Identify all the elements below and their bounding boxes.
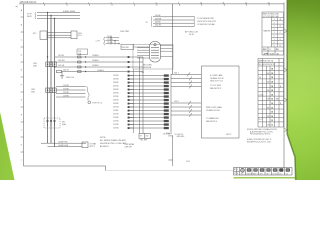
svg-text:CBL 2: CBL 2: [174, 101, 179, 103]
svg-text:2: 2: [274, 22, 275, 24]
phase bus L3: [37, 18, 80, 20]
fuse F1: [78, 56, 81, 58]
svg-text:SEE NOTE 3: SEE NOTE 3: [210, 88, 221, 90]
svg-text:NOTE:: NOTE:: [100, 137, 106, 139]
feeder wire 4: [62, 71, 144, 73]
bottom wire 1: [41, 142, 86, 144]
relay cluster: [104, 37, 150, 50]
phase bus L1: [37, 12, 80, 14]
svg-text:APT GND LUG: APT GND LUG: [185, 31, 198, 34]
svg-text:PWR SW: PWR SW: [122, 47, 130, 49]
filter block FL1: [40, 31, 77, 39]
table 1: [262, 12, 284, 55]
svg-text:9: 9: [274, 45, 275, 47]
svg-text:206 RD: 206 RD: [113, 93, 120, 95]
svg-text:203 BK: 203 BK: [113, 82, 119, 84]
svg-text:J2: J2: [146, 22, 148, 24]
svg-text:1:1: 1:1: [234, 173, 236, 175]
table 2 gauge column: [271, 69, 274, 127]
svg-text:SCL: SCL: [241, 173, 244, 175]
motor plug: [82, 142, 88, 148]
svg-text:B: B: [237, 173, 238, 175]
svg-text:CK 2: CK 2: [279, 173, 283, 175]
P1 wires left: [137, 48, 150, 58]
svg-text:4 AWG WIRE: 4 AWG WIRE: [63, 10, 76, 13]
bottom wire 2: [48, 146, 83, 148]
svg-text:12 AWG: 12 AWG: [92, 59, 99, 62]
svg-text:13: 13: [268, 2, 270, 4]
svg-text:APPR: APPR: [264, 52, 269, 55]
svg-text:SHT 2: SHT 2: [226, 134, 231, 136]
frame left border: [23, 4, 25, 166]
svg-text:PM 100-B1501/02, SHT 10: PM 100-B1501/02, SHT 10: [250, 134, 270, 136]
svg-text:SCALE: NTS DWN: RK CHK: TL: SCALE: NTS DWN: RK CHK: TL: [247, 138, 272, 141]
svg-text:MS3102A: MS3102A: [143, 66, 152, 69]
inline device on feeder 4: [57, 70, 62, 72]
svg-text:E STOP 1.2: E STOP 1.2: [93, 103, 103, 105]
table 1 row entries: [264, 18, 282, 47]
svg-text:L: L: [21, 159, 22, 161]
relay junction dots: [110, 37, 111, 38]
svg-text:14-16: 14-16: [189, 34, 194, 36]
junction dots: [47, 12, 48, 13]
svg-text:216 RD: 216 RD: [113, 128, 120, 130]
bus brace: [34, 12, 37, 19]
svg-text:TO SOLENOID PNL: TO SOLENOID PNL: [197, 18, 214, 20]
frame bottom border: [24, 166, 106, 171]
svg-text:10: 10: [200, 2, 202, 4]
ladder wires: [129, 76, 166, 129]
band sheen: [287, 0, 320, 180]
svg-text:TO JCT BOX: TO JCT BOX: [210, 85, 222, 87]
table 1 footer text: [263, 49, 280, 55]
green side band: [287, 0, 320, 180]
cable run group 1: [171, 72, 201, 88]
TB1 bottom jumpers: [139, 134, 145, 139]
row letters: [21, 9, 23, 161]
svg-text:4: 4: [66, 2, 67, 4]
svg-text:112 RD: 112 RD: [63, 92, 70, 94]
ladder left stubs and labels: [129, 76, 134, 129]
contactor K2: [46, 88, 56, 93]
svg-text:21-3: 21-3: [78, 35, 82, 37]
svg-text:1 CR: 1 CR: [96, 40, 101, 42]
svg-text:AS REQ'D.: AS REQ'D.: [100, 145, 110, 148]
feeder wire 3: [55, 66, 143, 68]
svg-text:SHOWN NOTED. LOOM CABL: SHOWN NOTED. LOOM CABL: [100, 142, 126, 145]
terminal strip TB1 left edge: [133, 69, 135, 133]
svg-text:113 RD: 113 RD: [63, 95, 70, 97]
svg-text:111 RD: 111 RD: [63, 88, 70, 90]
svg-text:10-21: 10-21: [270, 53, 274, 55]
feeder junction dots: [85, 56, 86, 57]
fuse F2: [78, 61, 81, 63]
svg-text:5: 5: [88, 2, 89, 4]
table 2 header text: [259, 59, 276, 66]
svg-text:201 BK: 201 BK: [113, 75, 119, 77]
frame right border: [283, 3, 285, 168]
svg-text:GND LUG: GND LUG: [66, 77, 75, 79]
svg-text:GND BUS: GND BUS: [177, 136, 186, 138]
svg-text:PLC 1: PLC 1: [259, 119, 264, 121]
TB1 rail pair: [139, 57, 141, 134]
top wire group: [153, 17, 194, 27]
svg-text:NO.: NO.: [276, 49, 280, 51]
svg-text:REV 0: REV 0: [253, 173, 258, 175]
feeder wire 1: [55, 56, 143, 58]
svg-text:121 WH: 121 WH: [107, 39, 114, 41]
frame top ruler line: [19, 3, 284, 5]
svg-text:7: 7: [133, 2, 134, 4]
svg-text:J-BOX MTG 4 IN CVR: J-BOX MTG 4 IN CVR: [197, 21, 216, 23]
remote box: [202, 66, 240, 138]
bus drop B: [50, 16, 52, 144]
svg-text:212 RD: 212 RD: [113, 114, 120, 116]
table 1 header text: [263, 13, 280, 18]
svg-text:TO MAIN DISC: TO MAIN DISC: [206, 117, 220, 120]
connector P1: [150, 42, 161, 63]
svg-text:101 BK: 101 BK: [58, 55, 65, 57]
svg-text:12: 12: [245, 2, 247, 4]
phase bus L2: [37, 15, 80, 17]
terminal strip TB2: [164, 74, 169, 129]
contactor K1: [46, 62, 56, 67]
svg-text:304 GN: 304 GN: [155, 25, 162, 27]
svg-text:PWR CORD CABL: PWR CORD CABL: [206, 106, 222, 109]
feeder wire 2: [55, 61, 143, 63]
title block icons: [241, 168, 245, 172]
dim marks: [285, 29, 287, 132]
table 1 sub divider: [277, 18, 279, 48]
svg-text:ENG APPR 10-21-94 P.O. 2210: ENG APPR 10-21-94 P.O. 2210: [247, 141, 271, 144]
svg-text:TB1: TB1: [141, 72, 144, 74]
connector P1 assembly: [133, 45, 173, 70]
svg-text:2 CND: 2 CND: [259, 94, 265, 96]
ruler ticks left: [21, 17, 24, 152]
table 2 cell entries: [259, 73, 282, 127]
svg-text:103 GN: 103 GN: [58, 65, 65, 67]
svg-text:MT: MT: [234, 169, 236, 171]
ground symbol G1: [60, 72, 64, 79]
fuse F3: [78, 66, 81, 68]
svg-text:12 AWG SOOW: 12 AWG SOOW: [206, 109, 220, 112]
svg-text:A-1: A-1: [277, 52, 280, 55]
svg-text:OF 2: OF 2: [266, 173, 269, 175]
cable run group 2: [171, 101, 201, 117]
feeder terminal squares: [128, 56, 130, 72]
svg-text:ALL WIRES 18 AWG UNLESS: ALL WIRES 18 AWG UNLESS: [100, 139, 126, 142]
svg-text:SEE NOTE 4: SEE NOTE 4: [206, 121, 217, 123]
svg-text:TB1 JMP: TB1 JMP: [140, 140, 148, 142]
svg-text:210 RD: 210 RD: [113, 107, 120, 109]
bus riser to P1: [172, 4, 174, 74]
off sheet riser: [172, 136, 174, 167]
title block: [234, 168, 293, 176]
svg-text:209 BK: 209 BK: [113, 103, 119, 105]
svg-text:122 GN: 122 GN: [107, 42, 113, 44]
svg-text:6: 6: [111, 2, 112, 4]
svg-text:6: 6: [274, 36, 275, 38]
svg-text:9: 9: [178, 2, 179, 4]
green corner wedge: [0, 112, 15, 180]
drain symbol: [88, 101, 91, 104]
svg-text:GND 25 FT LG: GND 25 FT LG: [210, 81, 223, 83]
table 2: [258, 59, 284, 128]
svg-text:11: 11: [223, 2, 225, 4]
svg-text:4: 4: [274, 29, 275, 31]
svg-text:205 BK: 205 BK: [113, 89, 119, 91]
group right bracket: [193, 16, 196, 27]
svg-text:211 BK: 211 BK: [113, 110, 119, 112]
svg-text:480V: 480V: [27, 16, 32, 18]
svg-text:301 BK: 301 BK: [155, 15, 161, 17]
svg-text:3: 3: [274, 26, 275, 28]
svg-text:202 RD: 202 RD: [113, 79, 120, 81]
green footer line: [234, 177, 296, 178]
P1 wires right: [161, 46, 173, 57]
svg-text:14 AWG WH: 14 AWG WH: [58, 144, 69, 147]
TB2 rail: [170, 74, 172, 132]
green band dark edge: [287, 0, 296, 180]
svg-text:3: 3: [43, 2, 44, 4]
svg-text:102 WH: 102 WH: [58, 60, 65, 62]
svg-text:7: 7: [274, 39, 275, 41]
svg-text:12 AWG: 12 AWG: [92, 54, 99, 57]
bus tap dots: [47, 56, 48, 57]
group brace: [150, 16, 153, 27]
svg-text:18: 18: [259, 77, 261, 79]
page background: [0, 0, 320, 180]
svg-text:215 BK: 215 BK: [113, 124, 119, 126]
svg-text:16 AWG SJO W: 16 AWG SJO W: [210, 77, 224, 80]
svg-text:2: 2: [270, 49, 271, 51]
stub ladder brace: [87, 86, 90, 97]
svg-text:5: 5: [274, 32, 275, 34]
svg-text:303 RD: 303 RD: [155, 22, 162, 24]
svg-text:CAP OFF: CAP OFF: [125, 145, 132, 148]
svg-text:120V PWR: 120V PWR: [120, 31, 130, 33]
bus drop C: [54, 19, 56, 147]
svg-text:18 COND: 18 COND: [163, 134, 171, 136]
svg-text:B: B: [280, 103, 281, 105]
ruler ticks top: [45, 4, 270, 6]
svg-text:D-4: D-4: [286, 173, 289, 175]
svg-text:XT: XT: [140, 136, 142, 138]
paper edge: [106, 170, 234, 172]
svg-text:208 RD: 208 RD: [113, 100, 120, 102]
svg-text:J: J: [21, 129, 22, 131]
ladder left terminal dots: [128, 75, 130, 129]
svg-text:SH 1: SH 1: [260, 173, 264, 175]
svg-text:COVER SD 1501 AB: COVER SD 1501 AB: [197, 23, 215, 26]
svg-text:2 REQ: 2 REQ: [168, 135, 174, 137]
svg-text:110 RD: 110 RD: [63, 85, 70, 87]
contactor K3 dashed: [44, 118, 60, 128]
TB box label: [77, 49, 88, 55]
ruler numbers: [43, 2, 270, 4]
svg-text:8: 8: [274, 42, 275, 44]
svg-text:104 GY: 104 GY: [63, 70, 70, 72]
feeder 4 fuse: [78, 71, 81, 73]
stub ladder: [56, 87, 86, 98]
svg-text:1: 1: [274, 19, 275, 21]
svg-text:213 BK: 213 BK: [113, 117, 119, 119]
svg-text:4 COND CABL: 4 COND CABL: [210, 74, 223, 77]
bus drop A: [47, 13, 49, 144]
svg-text:204 RD: 204 RD: [113, 86, 120, 88]
svg-text:MTR 1: MTR 1: [90, 146, 95, 148]
svg-text:8: 8: [156, 2, 157, 4]
band top shade: [287, 0, 320, 62]
svg-text:12 AWG: 12 AWG: [92, 64, 99, 67]
svg-text:207 BK: 207 BK: [113, 96, 119, 98]
svg-text:214 RD: 214 RD: [113, 121, 120, 123]
svg-text:1453-AB 100-21: 1453-AB 100-21: [20, 1, 37, 4]
svg-text:14 AWG BK: 14 AWG BK: [58, 140, 68, 143]
svg-text:DWG N: DWG N: [247, 173, 252, 175]
svg-text:302 WH: 302 WH: [155, 18, 162, 20]
